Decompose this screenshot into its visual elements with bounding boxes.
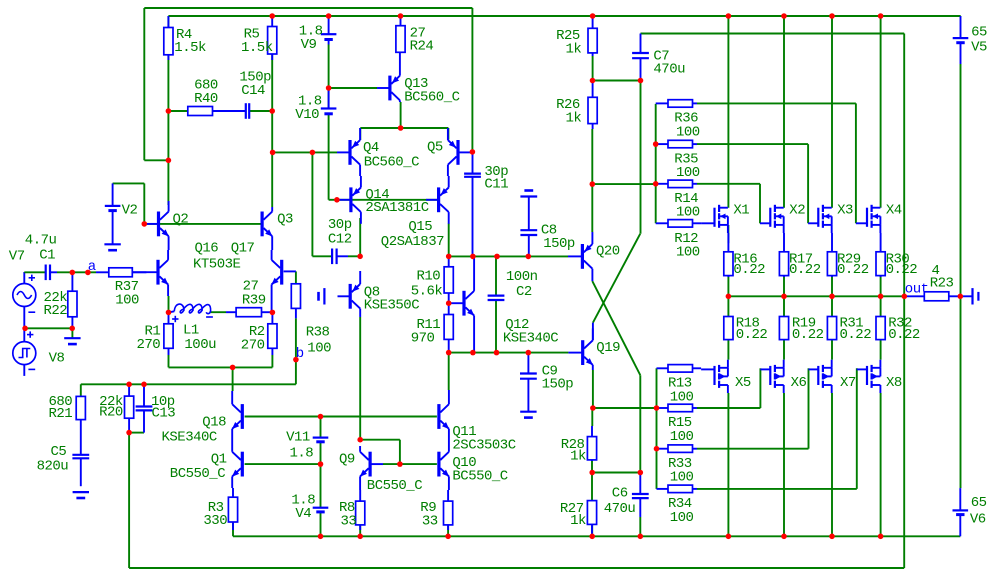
transistor Q15 [426,176,449,224]
wire [960,295,971,297]
wire [144,223,260,225]
wire [727,225,729,243]
label 100 [670,470,694,486]
svg-text:270: 270 [241,337,265,353]
svg-text:R20: R20 [99,405,123,421]
svg-text:4.7u: 4.7u [25,232,57,248]
label 1.5k [174,40,206,56]
battery V4 [313,508,329,512]
junction [445,534,451,540]
wire [360,127,448,129]
wire [593,407,657,409]
resistor R14 [656,180,697,188]
label 0.22 [789,262,821,278]
wire [495,256,497,295]
voltage source V7 [13,272,36,328]
svg-text:X6: X6 [791,375,807,391]
wire [144,7,472,9]
junction [142,221,148,227]
junction [126,430,132,436]
label 100 [676,124,700,140]
wire [471,8,473,152]
capacitor C9 [520,353,537,412]
svg-text:100: 100 [676,205,700,221]
capacitor C12 [332,249,348,265]
wire [591,524,593,537]
label R10 [417,269,441,285]
label BC560_C [404,89,459,105]
junction [590,78,596,84]
label Q4 [363,140,379,156]
wire [168,355,170,367]
wire [143,8,145,160]
svg-text:BC550_C: BC550_C [452,468,507,484]
label Q3 [277,212,293,228]
junction [590,13,596,19]
svg-text:0.22: 0.22 [888,327,920,343]
wire [167,55,169,205]
resistor R20 [125,384,134,432]
resistor R18 [724,317,733,340]
label V6 [970,511,986,527]
wire [727,296,729,316]
wire [249,110,272,112]
wire [783,276,785,297]
svg-text:C1: C1 [39,247,55,263]
svg-text:C12: C12 [328,232,352,248]
battery V5 [953,16,969,64]
label 4.7u [25,232,57,248]
label R25 [556,28,580,44]
resistor R39 [226,308,272,317]
wire [81,383,296,385]
label V2 [122,203,138,219]
wire [591,473,593,501]
svg-text:470u: 470u [653,62,685,78]
junction [166,158,172,164]
svg-text:0.22: 0.22 [736,327,768,343]
svg-text:V8: V8 [49,351,65,367]
inductor L1 [169,304,213,322]
svg-text:1k: 1k [570,449,586,465]
svg-text:Q20: Q20 [596,244,620,260]
label X2 [789,202,805,218]
label 2SA1381C [365,200,428,216]
resistor R34 [657,485,698,493]
transistor Q19 [568,328,593,370]
wire [168,15,960,17]
svg-text:1.8: 1.8 [290,445,314,461]
wire [359,128,361,140]
voltage source V8 [13,328,36,376]
svg-text:V4: V4 [295,506,311,522]
wire [697,102,856,104]
label Q8 [364,284,380,300]
label R17 [789,251,813,267]
svg-text:Q17: Q17 [231,240,255,256]
svg-text:C11: C11 [484,176,508,192]
wire [447,128,449,140]
mosfet X4 [856,205,881,233]
svg-text:L1: L1 [183,323,199,339]
svg-text:BC560_C: BC560_C [404,89,459,105]
wire [329,87,377,89]
junction [357,253,363,259]
label 30p [328,217,352,233]
wire [295,318,297,384]
svg-text:0.22: 0.22 [733,262,765,278]
wire [591,129,593,184]
label R35 [674,151,698,167]
label 0.22 [736,327,768,343]
svg-text:R22: R22 [44,303,68,319]
label R12 [674,231,698,247]
label R38 [306,324,330,340]
wire [232,522,234,536]
junction [318,534,324,540]
wire [245,463,321,465]
junction [470,254,476,260]
label 30p [484,164,508,180]
label R9 [420,500,436,516]
label 1.8 [290,445,314,461]
wire [320,512,322,536]
label KSE350C [364,297,419,313]
wire [831,276,833,297]
wire [383,463,437,465]
svg-text:270: 270 [137,337,161,353]
label C9 [542,363,558,379]
label R29 [837,251,861,267]
label 65 [971,24,987,40]
resistor R32 [876,317,885,340]
label R14 [674,191,698,207]
wire [639,375,641,472]
resistor R27 [587,501,596,537]
label R28 [561,437,585,453]
junction [69,326,75,332]
label C6 [612,486,628,502]
resistor R17 [779,233,788,277]
node a [85,270,91,276]
node b [293,357,299,363]
junction [726,534,732,540]
label C14 [241,83,265,99]
wire [903,296,905,568]
wire [593,80,641,82]
label X1 [733,202,749,218]
transistor Q18 [232,391,244,440]
junction [653,141,659,147]
junction [902,294,908,300]
wire [448,224,450,257]
svg-text:0.22: 0.22 [837,262,869,278]
wire [808,368,810,448]
wire [831,340,833,360]
resistor R8 [356,490,365,530]
svg-text:1.5k: 1.5k [241,40,273,56]
svg-text:R38: R38 [306,324,330,340]
junction [398,13,404,19]
wire [727,393,729,536]
node label out [905,282,929,298]
label 100n [506,269,538,285]
junction [781,294,787,300]
wire [656,368,658,489]
label R23 [930,276,954,292]
label R20 [99,405,123,421]
label 970 [411,331,435,347]
label C2 [516,284,532,300]
wire [169,366,273,368]
capacitor C11 [464,152,481,257]
svg-text:100: 100 [670,470,694,486]
svg-text:33: 33 [422,513,438,529]
junction [878,534,884,540]
junction [357,437,363,443]
label R33 [668,456,692,472]
resistor R4 [164,16,173,60]
wire [807,144,809,223]
svg-text:R23: R23 [930,276,954,292]
junction [397,461,403,467]
battery V2 [105,183,121,244]
svg-text:V9: V9 [301,37,317,53]
label C5 [51,444,67,460]
wire [400,102,402,128]
label 470u [653,62,685,78]
junction [638,78,644,84]
label R34 [668,496,692,512]
mosfet X1 [701,205,728,233]
wire [128,433,130,568]
transistor Q1 [232,440,244,488]
wire [295,271,297,284]
junction [446,350,452,356]
svg-text:470u: 470u [604,501,636,517]
svg-text:330: 330 [203,513,227,529]
label 4 [932,263,940,279]
resistor R1 [164,312,173,355]
wire [593,234,640,323]
svg-text:820u: 820u [37,458,69,474]
svg-text:100: 100 [670,389,694,405]
wire [727,16,729,208]
label R15 [668,415,692,431]
wire [329,199,337,201]
junction [166,310,172,316]
label 150p [543,236,575,252]
label 100 [307,341,331,357]
junction [398,125,404,131]
svg-text:970: 970 [411,331,435,347]
label V9 [301,37,317,53]
svg-text:33: 33 [341,513,357,529]
capacitor C8 [520,197,537,257]
transistor Q10 [437,440,449,490]
wire [71,328,73,338]
resistor R15 [657,404,698,412]
label 100 [676,205,700,221]
svg-text:150p: 150p [542,377,574,393]
wire [592,183,655,185]
junction [310,150,316,156]
resistor R3 [228,488,237,530]
label R36 [674,111,698,127]
wire [168,110,188,112]
resistor R5 [268,16,277,60]
label Q15 [408,219,432,235]
capacitor C2 [488,296,505,300]
svg-text:X7: X7 [840,375,856,391]
wire [759,368,761,408]
mosfet X8 [857,360,881,393]
label 680 [194,77,218,93]
svg-text:Q9: Q9 [339,452,355,468]
resistor R11 [444,303,453,352]
junction [22,326,28,332]
resistor R38 [291,284,300,319]
wire [168,247,170,249]
label BC560_C [364,155,419,171]
wire [697,407,760,409]
svg-text:Q2SA1837: Q2SA1837 [381,234,444,250]
wire [831,16,833,208]
junction [781,534,787,540]
ground [73,492,89,498]
label C13 [152,406,176,422]
wire [24,271,45,273]
capacitor C1 [46,265,57,281]
wire [592,370,594,408]
junction [829,294,835,300]
label 1.5k [241,40,273,56]
label 27 [410,26,426,42]
wire [284,270,296,272]
wire [727,340,729,360]
capacitor C13 [136,384,153,432]
label C1 [39,247,55,263]
svg-text:BC560_C: BC560_C [364,155,419,171]
wire [592,281,640,375]
junction [638,470,644,476]
wire [727,276,729,297]
label X7 [840,375,856,391]
label R39 [242,292,266,308]
resistor R35 [656,140,697,148]
svg-text:0.22: 0.22 [840,327,872,343]
label R16 [733,251,757,267]
svg-text:R39: R39 [242,292,266,308]
wire [57,271,96,273]
junction [589,534,595,540]
label 100 [670,389,694,405]
label 0.22 [792,327,824,343]
label 150p [239,70,271,86]
svg-text:Q3: Q3 [277,212,293,228]
wire [213,110,246,112]
junction [654,446,660,452]
wire [129,432,144,434]
junction [590,181,596,187]
label 1k [566,41,582,57]
junction [589,470,595,476]
wire [359,218,361,256]
label 10p [151,394,175,410]
wire [113,182,145,184]
node label b [296,346,304,362]
junction [334,197,340,203]
transistor Q13 [377,52,400,102]
capacitor C14 [213,103,249,119]
svg-text:2SC3503C: 2SC3503C [452,437,515,453]
wire [783,296,785,316]
transistor Q3 [261,207,273,250]
transistor Q5 [448,128,470,176]
svg-text:100: 100 [307,341,331,357]
ground [319,288,325,304]
label V7 [9,249,25,265]
label R11 [417,317,441,333]
svg-text:R10: R10 [417,269,441,285]
label X3 [837,202,853,218]
label R1 [145,323,161,339]
resistor R9 [444,490,453,530]
wire [447,525,449,536]
resistor R16 [724,233,733,277]
label 0.22 [840,327,872,343]
label 0.22 [733,262,765,278]
junction [638,534,644,540]
resistor R12 [656,220,701,228]
label V4 [295,506,311,522]
svg-text:R40: R40 [194,91,218,107]
label R24 [410,39,434,55]
svg-text:out: out [905,282,929,298]
wire [232,367,234,391]
wire [855,103,857,223]
resistor R31 [827,317,836,340]
label 330 [203,513,227,529]
junction [726,13,732,19]
svg-text:BC550_C: BC550_C [367,478,422,494]
wire [639,517,641,536]
label 1.8 [291,493,315,509]
label C8 [541,223,557,239]
resistor R22 [68,272,77,328]
label 100u [184,337,216,353]
wire [360,439,400,441]
wire [25,327,73,329]
label R3 [208,500,224,516]
wire [210,311,227,313]
svg-text:1k: 1k [570,513,586,529]
resistor R29 [827,233,836,277]
wire [272,151,337,153]
resistor R30 [876,233,885,277]
junction [318,461,324,467]
transistor Q16 [132,250,168,296]
svg-text:X8: X8 [886,375,902,391]
label R2 [249,324,265,340]
junction [141,382,147,388]
wire [470,151,472,153]
wire [697,143,808,145]
label R4 [176,27,192,43]
wire [495,300,497,353]
junction [166,108,172,114]
svg-text:BC550_C: BC550_C [170,466,225,482]
